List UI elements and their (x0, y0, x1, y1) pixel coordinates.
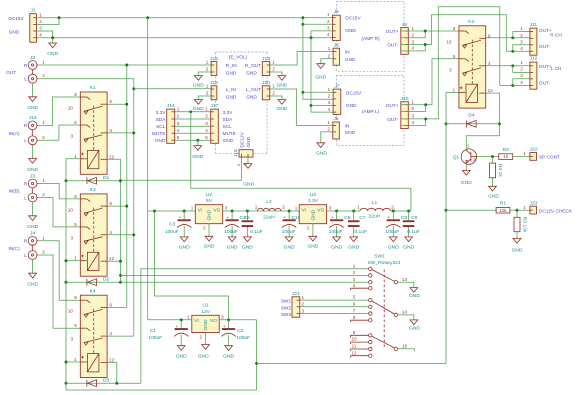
svg-text:K2: K2 (468, 19, 474, 25)
wire U2 input (148, 210, 196, 212)
svg-text:+: + (388, 215, 391, 220)
svg-text:MUTE: MUTE (152, 131, 165, 137)
svg-text:MUTE: MUTE (223, 131, 236, 137)
wire J15 pin2 gnd (198, 72, 211, 76)
svg-text:3: 3 (177, 121, 180, 126)
svg-text:J21: J21 (292, 291, 300, 297)
svg-text:3.3V: 3.3V (156, 110, 167, 116)
wire K4 coil to SW (141, 269, 368, 383)
svg-text:9: 9 (109, 302, 112, 307)
wire J10 pin2 (401, 105, 426, 112)
svg-text:8: 8 (353, 315, 356, 320)
svg-text:IN(A): IN(A) (8, 131, 20, 137)
junction (132, 131, 135, 134)
svg-text:4: 4 (412, 46, 415, 51)
junction (115, 382, 118, 385)
regulator U1 (187, 303, 224, 340)
svg-text:GND: GND (176, 354, 187, 360)
svg-text:4: 4 (177, 128, 180, 133)
svg-text:12: 12 (109, 358, 115, 363)
svg-text:OUT-: OUT- (387, 117, 399, 123)
svg-text:8: 8 (453, 26, 456, 31)
svg-text:4: 4 (328, 107, 331, 112)
wire K2 pin9 to J11 (486, 37, 530, 39)
svg-text:J3: J3 (30, 173, 35, 179)
wire 3.3V riser (191, 112, 411, 211)
wire J21 pin3 (300, 313, 369, 315)
regulator U2 (191, 192, 228, 230)
svg-text:13: 13 (402, 277, 408, 282)
svg-text:2: 2 (327, 126, 330, 131)
svg-text:3: 3 (71, 337, 74, 342)
svg-text:3: 3 (412, 39, 415, 44)
svg-text:J11: J11 (530, 22, 538, 28)
wire J7 pin4 (311, 111, 333, 113)
svg-text:3: 3 (329, 206, 332, 211)
junction (516, 209, 519, 212)
svg-text:5: 5 (353, 295, 356, 300)
inductor L2 (255, 199, 286, 221)
wire L bus (133, 89, 135, 336)
resistor R4 (490, 163, 504, 178)
svg-text:K1: K1 (90, 85, 96, 91)
wire J11 pin34 (506, 50, 530, 52)
dashed AMP R box (337, 2, 405, 72)
svg-text:VI: VI (198, 208, 203, 214)
svg-text:GND: GND (331, 245, 342, 251)
connector J21 (281, 291, 305, 318)
svg-text:VI: VI (302, 208, 307, 214)
svg-text:2: 2 (205, 114, 208, 119)
svg-text:5: 5 (74, 323, 77, 328)
svg-text:1: 1 (412, 26, 415, 31)
wire K1 pin4 (107, 132, 134, 134)
svg-text:1: 1 (206, 60, 209, 65)
wire after L1 (391, 210, 411, 212)
svg-text:1: 1 (74, 256, 77, 261)
wire J4 ground stem (32, 259, 34, 273)
wire J14-J17 (175, 111, 211, 113)
svg-text:R3 10k: R3 10k (522, 217, 528, 233)
capacitor C4 (224, 211, 246, 251)
svg-text:1: 1 (295, 206, 298, 211)
junction (511, 50, 514, 53)
junction (424, 117, 427, 120)
wire 5V rail (223, 210, 300, 212)
wire J19 to J6 (270, 52, 333, 66)
svg-text:L: L (24, 195, 27, 201)
junction (153, 210, 156, 213)
wire J5 pin3 (311, 31, 333, 38)
svg-text:8: 8 (74, 92, 77, 97)
junction (301, 91, 304, 94)
wire J5 pin2 (303, 23, 333, 25)
svg-text:SW3: SW3 (281, 312, 292, 318)
ground J16 (193, 100, 204, 113)
wire 3.3V out (327, 210, 360, 212)
svg-text:GND: GND (198, 354, 209, 360)
svg-text:GND: GND (388, 245, 399, 251)
junction (511, 36, 514, 39)
junction (445, 122, 448, 125)
wire J21 pin2 (300, 306, 369, 308)
capacitor C5 (242, 211, 263, 251)
svg-text:DC15V: DC15V (8, 16, 24, 22)
svg-text:100uF: 100uF (329, 229, 343, 235)
svg-text:K4: K4 (90, 288, 96, 294)
svg-text:R_IN: R_IN (226, 63, 237, 69)
svg-text:2: 2 (412, 106, 415, 111)
wire D2 net (66, 281, 121, 283)
svg-text:GND: GND (409, 293, 420, 299)
wire R4 bottom (492, 178, 494, 187)
connector J2 (6, 55, 45, 83)
wire gnd stem (197, 140, 199, 145)
wire 12V bottom rail (257, 362, 447, 364)
svg-text:OUT: OUT (6, 70, 16, 76)
svg-text:1: 1 (328, 87, 331, 92)
wire 12V loop to U2 (155, 211, 229, 320)
svg-text:4: 4 (327, 32, 330, 37)
svg-text:(E_VOL): (E_VOL) (229, 54, 248, 60)
junction (511, 64, 514, 67)
svg-text:C6: C6 (344, 215, 351, 221)
svg-text:1: 1 (42, 235, 45, 240)
svg-text:GND: GND (345, 57, 356, 63)
capacitor C6 (329, 211, 351, 251)
svg-text:2: 2 (42, 250, 45, 255)
junction (301, 16, 304, 19)
svg-text:2: 2 (353, 270, 356, 275)
svg-text:3: 3 (221, 315, 224, 320)
svg-text:9: 9 (109, 201, 112, 206)
connector J22 (530, 147, 560, 161)
svg-text:10k: 10k (499, 208, 507, 213)
svg-text:J9: J9 (402, 22, 407, 28)
svg-text:3: 3 (71, 235, 74, 240)
svg-text:2: 2 (412, 33, 415, 38)
svg-text:8: 8 (74, 194, 77, 199)
svg-text:GND: GND (27, 282, 38, 288)
svg-text:GND: GND (204, 243, 215, 249)
svg-text:1: 1 (520, 26, 523, 31)
wire K3 pin12 (107, 260, 120, 262)
junction (246, 210, 249, 213)
wire Q1 base (477, 156, 499, 158)
svg-text:D4: D4 (468, 113, 475, 119)
svg-text:GND: GND (488, 193, 499, 199)
wire K4 pin12 down (107, 363, 117, 384)
svg-text:3: 3 (473, 157, 476, 162)
diode D1 (87, 175, 110, 184)
junction (132, 87, 135, 90)
junction (335, 210, 338, 213)
svg-text:GND: GND (345, 28, 356, 34)
svg-text:1: 1 (205, 106, 208, 111)
svg-text:GND: GND (27, 224, 38, 230)
switch stub pins (351, 288, 369, 357)
wire J1 pin3 to ground (36, 31, 52, 43)
svg-text:J15: J15 (210, 56, 218, 62)
connector J18 (233, 131, 253, 166)
resistor R2 (499, 147, 513, 159)
svg-text:GND: GND (242, 245, 253, 251)
wire J2 R to R_IN (39, 64, 211, 66)
ground SW13 (409, 288, 420, 299)
svg-text:+: + (223, 324, 226, 329)
wire J2 ground stem (32, 83, 34, 97)
svg-text:L CH: L CH (551, 66, 562, 72)
svg-text:SCL: SCL (156, 124, 166, 130)
wire J14-J17 (175, 139, 211, 141)
wire SW1 common14 gnd (398, 315, 414, 320)
svg-text:2: 2 (328, 94, 331, 99)
junction (65, 281, 68, 284)
svg-text:10: 10 (351, 337, 357, 342)
svg-text:DC12V CHECK: DC12V CHECK (539, 208, 573, 214)
svg-text:GND: GND (47, 51, 58, 57)
junction (65, 361, 68, 364)
wire D4 net (446, 123, 499, 125)
ground R4 (488, 186, 499, 199)
diode D3 (87, 378, 110, 387)
wire J20 pin2 gnd (270, 96, 282, 100)
connector J6 (328, 42, 356, 65)
svg-text:VO: VO (317, 208, 324, 214)
svg-text:1: 1 (523, 205, 526, 210)
svg-text:3: 3 (353, 277, 356, 282)
svg-text:GND: GND (512, 247, 523, 253)
wire bottom link (66, 383, 257, 390)
wire J10 OUT- (401, 7, 500, 119)
diode D2 (87, 277, 110, 286)
svg-text:GND: GND (207, 209, 213, 220)
wire U1 out (219, 319, 256, 321)
ground J13 (27, 159, 38, 173)
svg-text:U1: U1 (202, 303, 209, 309)
svg-text:11: 11 (352, 344, 357, 349)
connector J15 (206, 56, 237, 77)
svg-text:DC15V: DC15V (346, 90, 362, 96)
svg-text:2: 2 (206, 91, 209, 96)
svg-text:IN: IN (345, 123, 350, 129)
svg-text:J19: J19 (262, 56, 270, 62)
wire J12 pin34 (500, 85, 530, 87)
connector J7 (328, 83, 362, 114)
junction (511, 84, 514, 87)
svg-text:1: 1 (523, 151, 526, 156)
svg-text:12: 12 (109, 154, 115, 159)
svg-text:J2: J2 (30, 55, 35, 61)
svg-text:OUT+: OUT+ (386, 103, 399, 109)
wire J13 L to K1 pin5 (39, 125, 80, 140)
svg-text:3: 3 (225, 206, 228, 211)
svg-text:J20: J20 (262, 80, 270, 86)
svg-text:SDA: SDA (156, 117, 167, 123)
svg-text:+: + (226, 215, 229, 220)
svg-text:L: L (24, 77, 27, 83)
svg-text:5: 5 (74, 222, 77, 227)
svg-text:SW_Rotary3x4: SW_Rotary3x4 (368, 260, 401, 266)
junction (288, 210, 291, 213)
svg-text:12: 12 (109, 256, 115, 261)
svg-text:GND: GND (179, 245, 190, 251)
junction (183, 210, 186, 213)
junction (196, 139, 199, 142)
wire GND col (310, 38, 312, 112)
ground J20 (276, 100, 287, 113)
connector J20 (246, 80, 276, 100)
svg-text:1: 1 (206, 84, 209, 89)
wire K2 pin4 to J12 (486, 65, 530, 67)
ground J4 (27, 273, 38, 287)
dashed E_VOL box (216, 52, 268, 153)
capacitor C10 (282, 211, 301, 251)
wire GND rail (36, 37, 332, 39)
wire J12 pin3 branch (513, 79, 530, 86)
svg-text:2: 2 (302, 302, 305, 307)
svg-text:L_IN: L_IN (226, 87, 237, 93)
junction (301, 23, 304, 26)
wire R3 top (516, 210, 518, 217)
wire J4 L to K4 pin5 (39, 255, 80, 328)
svg-text:1: 1 (302, 295, 305, 300)
svg-text:SW1: SW1 (374, 254, 385, 260)
wire J5 pin2 feed (303, 18, 333, 100)
connector J4 (8, 231, 45, 260)
svg-text:2: 2 (200, 334, 203, 339)
svg-text:2: 2 (391, 205, 394, 210)
svg-text:2: 2 (327, 19, 330, 24)
svg-text:1: 1 (357, 205, 360, 210)
junction (352, 210, 355, 213)
svg-text:2: 2 (307, 225, 310, 230)
switch pin numbers (351, 263, 407, 355)
svg-text:3: 3 (412, 114, 415, 119)
connector J9 (386, 22, 415, 55)
svg-text:GND: GND (227, 245, 238, 251)
svg-text:SDA: SDA (223, 117, 234, 123)
svg-text:2: 2 (328, 53, 331, 58)
dashed AMP L box (337, 75, 405, 145)
junction (125, 205, 128, 208)
wire J9 pin4 (401, 45, 425, 51)
wire K3 pin1 (66, 260, 80, 262)
svg-text:C7: C7 (359, 215, 366, 221)
svg-text:4: 4 (109, 230, 112, 235)
svg-text:4: 4 (353, 283, 356, 288)
capacitor C7 (348, 211, 367, 251)
resistor R3 (514, 217, 528, 233)
svg-text:GND: GND (345, 130, 356, 136)
relay K3 (68, 187, 115, 276)
svg-text:100uF: 100uF (385, 229, 399, 235)
capacitor C9 (403, 211, 420, 251)
svg-text:100uF: 100uF (165, 229, 179, 235)
svg-text:GND: GND (348, 245, 359, 251)
svg-text:GND: GND (223, 138, 234, 144)
junction (491, 155, 494, 158)
svg-text:3: 3 (327, 26, 330, 31)
svg-text:GND: GND (9, 30, 20, 36)
junction (189, 110, 192, 113)
ground J15 (193, 76, 204, 89)
wire J7 pin1 (303, 91, 333, 93)
svg-text:2: 2 (177, 114, 180, 119)
svg-text:1: 1 (236, 163, 241, 166)
svg-text:1: 1 (74, 154, 77, 159)
svg-text:J10: J10 (401, 96, 409, 102)
svg-text:SW1: SW1 (281, 299, 292, 305)
svg-text:DC15V: DC15V (345, 16, 361, 22)
wire K3 pin9 (107, 205, 127, 207)
svg-text:D3: D3 (103, 378, 110, 384)
svg-text:J5: J5 (334, 9, 339, 15)
svg-text:2: 2 (206, 67, 209, 72)
svg-text:GND: GND (403, 245, 414, 251)
wire U2 gnd stem (208, 224, 210, 237)
wire R2 to J22 (513, 151, 530, 156)
connector J3 (8, 173, 45, 202)
capacitor C8 (385, 211, 407, 251)
svg-text:J7: J7 (334, 83, 339, 89)
wire J14-J17 (175, 132, 211, 134)
wire D1 net (66, 180, 121, 182)
svg-text:12: 12 (351, 350, 357, 355)
svg-text:100uF: 100uF (224, 229, 238, 235)
junction (65, 382, 68, 385)
wire J6 gnd (321, 59, 333, 64)
switch SW1 contacts (369, 267, 398, 357)
svg-text:GND: GND (155, 138, 166, 144)
svg-text:1: 1 (187, 315, 190, 320)
svg-text:2: 2 (42, 135, 45, 140)
svg-text:L: L (24, 138, 27, 144)
svg-text:J6: J6 (334, 42, 339, 48)
svg-text:1: 1 (328, 46, 331, 51)
connector J19 (245, 56, 275, 77)
svg-text:GND: GND (27, 105, 38, 111)
svg-text:OUT-: OUT- (539, 81, 551, 87)
wire J21 pin1 (300, 299, 369, 301)
svg-text:R2: R2 (503, 147, 510, 153)
svg-text:GND: GND (284, 245, 295, 251)
svg-text:4: 4 (109, 128, 112, 133)
relay K4 (68, 288, 115, 377)
wire K1 pin9 (107, 103, 127, 105)
svg-text:4: 4 (520, 80, 523, 85)
junction (424, 30, 427, 33)
svg-text:1: 1 (191, 206, 194, 211)
svg-text:3: 3 (71, 134, 74, 139)
ground J18 (243, 164, 254, 188)
wire R3 bottom (516, 232, 518, 239)
wire J8 gnd (321, 132, 333, 143)
svg-text:Q1: Q1 (453, 155, 460, 161)
svg-text:J17: J17 (211, 103, 219, 109)
wire J11 pin3 branch (513, 45, 530, 52)
svg-text:OUT-: OUT- (387, 42, 399, 48)
svg-text:2: 2 (42, 73, 45, 78)
connector J8 (327, 116, 355, 139)
svg-text:0.1uF: 0.1uF (250, 229, 263, 235)
svg-text:GND: GND (223, 354, 234, 360)
svg-text:1: 1 (272, 60, 275, 65)
svg-text:4: 4 (488, 61, 491, 66)
svg-text:GND: GND (226, 70, 237, 76)
svg-text:3.3V: 3.3V (223, 110, 234, 116)
svg-text:14: 14 (402, 310, 408, 315)
